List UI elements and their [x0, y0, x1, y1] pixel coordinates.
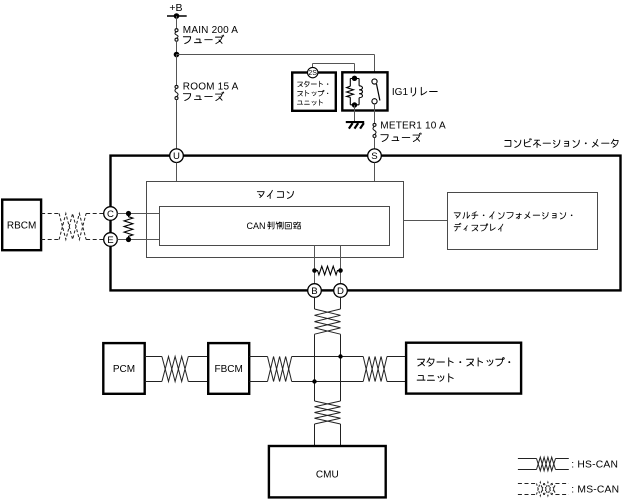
terminating resistor (C-E)	[124, 211, 133, 242]
relay switch contacts	[372, 79, 380, 104]
label METER1 10 A	[380, 121, 446, 142]
wire MAIN fuse to junction	[176, 41, 178, 54]
wire S to microcomputer	[374, 163, 376, 182]
box FBCM	[208, 343, 249, 394]
svg-text:IG1: IG1	[392, 87, 409, 98]
label combination meter	[505, 139, 618, 148]
wire ROOM fuse to terminal U	[176, 100, 178, 149]
wire E to CAN circuit	[117, 239, 159, 241]
wire HS-CAN pair bus to CMU (twisted)	[315, 401, 341, 446]
label maikon	[257, 190, 293, 198]
wire junction to ROOM fuse	[176, 54, 178, 85]
label IG1 relay	[392, 87, 437, 98]
label start-stop unit (top) line2	[298, 90, 329, 96]
label multi-information display line1	[454, 212, 572, 219]
label start-stop unit (bottom) line2	[417, 374, 453, 382]
svg-text:+B: +B	[169, 2, 182, 14]
terminating resistor (B-D)	[312, 266, 343, 275]
box microcomputer (maikon)	[147, 182, 404, 258]
wire relay switch to METER1 fuse	[374, 104, 376, 124]
ground (chassis)	[346, 121, 364, 129]
terminal E	[104, 233, 118, 247]
box start-stop unit (bottom)	[406, 343, 521, 394]
label multi-information display line2	[454, 223, 503, 231]
legend label HS-CAN	[571, 460, 618, 471]
svg-text:2S: 2S	[308, 70, 317, 77]
legend label MS-CAN	[571, 484, 619, 495]
junction dot bus CAN-H	[338, 354, 342, 358]
relay coil with resistor	[347, 76, 363, 108]
fuse METER1 10 A	[373, 123, 376, 137]
svg-text:U: U	[173, 151, 180, 162]
svg-text:METER1 10 A: METER1 10 A	[380, 121, 446, 132]
svg-text:C: C	[107, 209, 114, 220]
label ROOM 15 A	[183, 82, 239, 101]
wire MS-CAN RBCM to C (dashed pair)	[41, 214, 104, 240]
terminal U	[170, 149, 184, 163]
node +B battery terminal	[167, 2, 187, 19]
label PCM	[113, 364, 135, 375]
svg-text:CMU: CMU	[316, 470, 339, 481]
legend HS-CAN symbol	[518, 457, 569, 471]
svg-text:D: D	[337, 286, 344, 297]
box PCM	[103, 343, 144, 394]
wire +B to MAIN fuse	[176, 16, 178, 29]
svg-text:S: S	[371, 151, 377, 162]
wire maikon to multi-information display	[404, 220, 448, 222]
box IG1 relay	[342, 72, 387, 110]
wire METER1 fuse to terminal S	[374, 138, 376, 150]
svg-text:: MS-CAN: : MS-CAN	[571, 484, 619, 495]
junction dot main feed	[174, 52, 180, 58]
wire start-stop unit 2S to relay coil	[313, 64, 355, 77]
fuse MAIN 200 A	[175, 29, 178, 42]
junction dot bus CAN-L	[312, 379, 316, 383]
label FBCM	[215, 364, 243, 375]
fuse ROOM 15 A	[175, 85, 178, 99]
wire HS-CAN junction to start-stop unit (twisted pair)	[363, 357, 406, 382]
wire HS-CAN PCM to FBCM (twisted pair)	[145, 357, 209, 382]
svg-text:RBCM: RBCM	[7, 221, 36, 232]
box multi-information display	[448, 193, 598, 250]
svg-text:FBCM: FBCM	[215, 364, 243, 375]
wire CAN circuit to terminal D	[340, 246, 342, 284]
terminal 2S on start-stop unit	[308, 67, 318, 77]
wire C to CAN circuit	[117, 213, 159, 215]
wire U to microcomputer	[176, 163, 178, 182]
label start-stop unit (bottom) line1	[418, 358, 511, 367]
label start-stop unit (top) line1	[298, 81, 329, 87]
wire CAN circuit to terminal B	[314, 246, 316, 284]
terminal S	[368, 149, 382, 163]
terminal B	[308, 284, 322, 298]
box RBCM	[2, 200, 41, 251]
terminal C	[104, 207, 118, 221]
svg-text:E: E	[107, 235, 113, 246]
label RBCM	[7, 221, 36, 232]
wire relay coil to ground	[354, 105, 356, 121]
wire HS-CAN FBCM to junction (twisted pair)	[249, 357, 363, 382]
label start-stop unit (top) line3	[297, 100, 322, 106]
svg-text:MAIN 200 A: MAIN 200 A	[183, 25, 238, 36]
svg-text:PCM: PCM	[113, 364, 135, 375]
label CMU	[316, 470, 339, 481]
terminal D	[334, 284, 348, 298]
box combination meter	[111, 156, 621, 291]
svg-text:CAN: CAN	[247, 221, 266, 231]
wire junction to IG1 relay switch	[177, 55, 375, 80]
svg-text:ROOM 15 A: ROOM 15 A	[183, 82, 239, 93]
legend MS-CAN symbol	[518, 482, 569, 496]
wire HS-CAN pair meter to bus (twisted)	[315, 297, 341, 401]
box start-stop unit (top)	[292, 73, 336, 111]
box CMU	[269, 446, 386, 497]
svg-text:B: B	[311, 286, 317, 297]
label CAN control circuit	[247, 221, 301, 231]
label MAIN 200 A	[183, 25, 238, 43]
svg-text:: HS-CAN: : HS-CAN	[571, 460, 618, 471]
box CAN control circuit	[160, 207, 390, 246]
